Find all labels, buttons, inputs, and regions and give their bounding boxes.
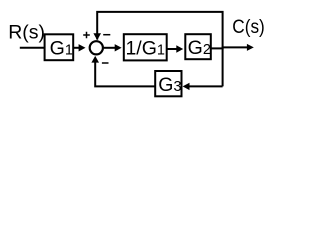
block 1/G1 bbox=[124, 34, 167, 60]
wire feedforward top rail bbox=[97, 12, 222, 87]
arrowhead into summing junction from G1 bbox=[79, 44, 86, 51]
summing junction circle bbox=[90, 41, 103, 54]
arrowhead into G2 bbox=[176, 45, 183, 52]
block G2 bbox=[185, 34, 211, 59]
wire summing junction to 1/G1 bbox=[104, 47, 115, 49]
svg-text:R(s): R(s) bbox=[8, 21, 45, 43]
wire feedback bottom rail right bbox=[189, 85, 222, 87]
arrowhead output C(s) bbox=[247, 44, 254, 51]
arrowhead into G3 from right bbox=[183, 83, 190, 90]
minus sign bottom of summing junction bbox=[102, 62, 109, 64]
arrowhead up into summing junction bottom bbox=[91, 56, 99, 63]
block G3 bbox=[155, 71, 181, 96]
wire G1 to summing junction bbox=[73, 47, 79, 49]
plus sign at summing junction bbox=[83, 32, 90, 39]
wire output C(s) bbox=[211, 47, 224, 49]
arrowhead down into summing junction top bbox=[93, 33, 101, 40]
svg-text:C(s): C(s) bbox=[232, 16, 264, 38]
block G1 bbox=[45, 34, 74, 60]
wire input R(s) bbox=[20, 47, 45, 49]
arrowhead into 1/G1 bbox=[115, 44, 122, 51]
wire 1/G1 to G2 bbox=[167, 48, 177, 50]
wire feedback bottom rail left bbox=[95, 63, 155, 87]
minus sign top of summing junction bbox=[103, 34, 110, 36]
